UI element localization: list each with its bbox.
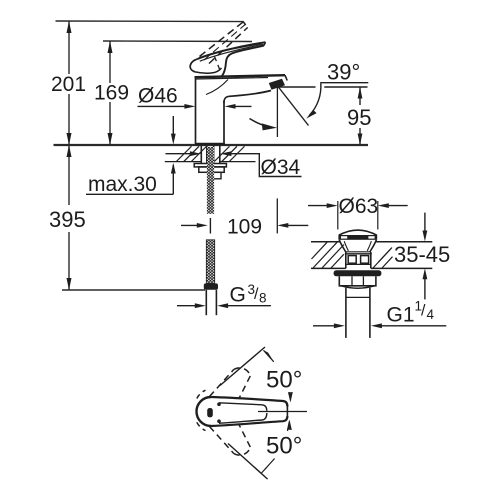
G3/8 tube xyxy=(206,290,216,315)
dim 95 xyxy=(358,87,363,145)
svg-text:8: 8 xyxy=(259,291,267,306)
svg-text:4: 4 xyxy=(427,307,435,322)
39 degree: underline, ref line, arc, stream line xyxy=(278,83,368,126)
svg-text:201: 201 xyxy=(51,73,86,96)
small curved arrow under spout xyxy=(250,119,278,131)
50 deg upper line + arrow xyxy=(220,347,293,403)
basin lines + hatching xyxy=(311,242,432,269)
extension line 169 xyxy=(103,40,252,43)
50 deg lower line + arrow xyxy=(228,420,292,480)
dim G1 1/4 xyxy=(313,323,446,328)
faucet body xyxy=(195,75,288,145)
waste tailpipe G1 1/4 xyxy=(346,288,370,338)
aerator xyxy=(269,79,285,90)
svg-text:50°: 50° xyxy=(266,433,302,460)
solid handle top view xyxy=(197,397,288,426)
lever solid xyxy=(190,42,265,76)
waste dome cap xyxy=(338,230,377,252)
svg-text:max.30: max.30 xyxy=(88,173,157,196)
svg-text:395: 395 xyxy=(49,207,86,232)
dim 35-45 xyxy=(423,213,428,300)
waste nut xyxy=(339,276,376,288)
dim G3/8 xyxy=(177,303,271,308)
svg-text:169: 169 xyxy=(94,82,129,105)
svg-text:/: / xyxy=(421,303,426,320)
svg-text:95: 95 xyxy=(347,105,371,130)
dim max.30 xyxy=(86,116,176,194)
dim 109 xyxy=(181,218,308,234)
svg-text:G: G xyxy=(230,284,246,307)
lever dashed raised xyxy=(200,22,248,72)
vertical ref line from aerator xyxy=(276,87,278,137)
extension line top (201) xyxy=(56,20,244,23)
svg-text:Ø34: Ø34 xyxy=(261,156,301,179)
waste body xyxy=(345,252,372,268)
dim 395 line xyxy=(67,145,72,290)
dim Ø34 xyxy=(166,151,302,176)
svg-text:Ø46: Ø46 xyxy=(138,85,178,108)
dim 201 line xyxy=(67,21,72,145)
deck line xyxy=(54,144,369,146)
dim 169 line xyxy=(108,41,113,145)
extension line 395 bottom xyxy=(62,289,205,291)
dim Ø63 xyxy=(308,201,408,230)
dashed handle down xyxy=(197,422,251,455)
braided hose segments xyxy=(206,147,214,283)
svg-text:Ø63: Ø63 xyxy=(339,195,379,218)
hose connector nut xyxy=(204,283,218,289)
svg-text:109: 109 xyxy=(227,216,262,239)
svg-text:50°: 50° xyxy=(266,367,302,394)
svg-text:35-45: 35-45 xyxy=(394,242,450,267)
dashed handle up xyxy=(197,368,251,399)
svg-text:G1: G1 xyxy=(387,304,415,327)
handle dots and slot xyxy=(217,402,221,406)
deck hatching + shank xyxy=(165,146,256,161)
center line xyxy=(258,411,307,413)
waste seal xyxy=(334,270,382,276)
svg-text:39°: 39° xyxy=(327,60,360,85)
dim Ø46 xyxy=(138,104,252,109)
